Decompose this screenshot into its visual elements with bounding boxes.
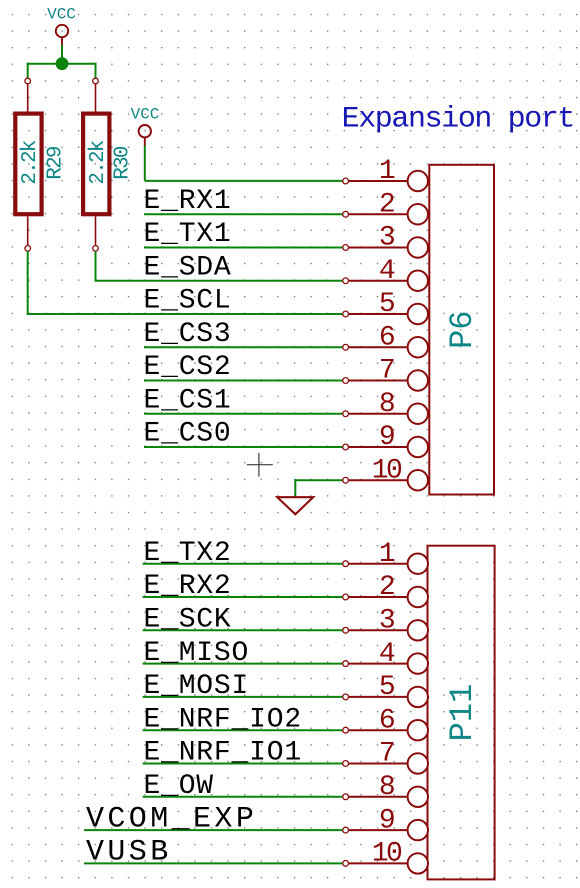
wire net E_MISO (143, 663, 343, 665)
wire net E_NRF_IO1 (143, 763, 343, 765)
svg-text:E_MOSI: E_MOSI (144, 671, 250, 702)
wire net E_SDA (95, 280, 344, 282)
wire R30 to E_SDA net (95, 251, 97, 281)
wire down to R29 (27, 63, 29, 78)
svg-text:6: 6 (379, 322, 394, 353)
wire VCC to junction (61, 46, 63, 64)
svg-text:2: 2 (379, 572, 394, 603)
svg-text:7: 7 (379, 739, 394, 770)
wire net E_CS2 (144, 380, 343, 382)
wire net E_CS3 (144, 346, 343, 348)
wire net E_RX2 (143, 596, 343, 598)
cross marker (247, 453, 273, 477)
resistor R29 2.2k (15, 78, 67, 251)
svg-text:1: 1 (379, 539, 395, 570)
pin 6 of P6 (343, 322, 428, 357)
svg-text:P11: P11 (444, 684, 481, 742)
svg-text:3: 3 (379, 223, 395, 254)
pin 10 of P11 (343, 839, 428, 874)
svg-text:VUSB: VUSB (86, 836, 172, 870)
svg-text:VCOM_EXP: VCOM_EXP (86, 802, 257, 836)
pin 7 of P11 (343, 739, 428, 774)
svg-text:10: 10 (372, 839, 402, 870)
svg-text:5: 5 (379, 289, 395, 320)
connector P6 (343, 156, 494, 494)
pin 10 of P6 (343, 455, 428, 490)
pin 3 of P11 (343, 606, 428, 641)
svg-text:E_SCL: E_SCL (144, 286, 232, 317)
pin 2 of P6 (343, 189, 428, 224)
svg-text:E_CS0: E_CS0 (144, 419, 232, 450)
svg-text:VCC: VCC (47, 6, 76, 24)
pin 1 of P11 (343, 539, 428, 574)
wire net VUSB (84, 862, 343, 864)
svg-text:P6: P6 (444, 310, 481, 348)
ground (277, 497, 313, 514)
wire net E_TX1 (144, 247, 343, 249)
svg-text:E_NRF_IO2: E_NRF_IO2 (144, 704, 302, 735)
power symbol VCC (pin 1 net) (131, 106, 160, 146)
svg-text:6: 6 (379, 705, 394, 736)
wire R29 to E_SCL net (27, 251, 29, 314)
wire net E_CS0 (144, 446, 343, 448)
svg-text:3: 3 (379, 606, 395, 637)
wire down to R30 (95, 63, 97, 78)
svg-text:2.2k: 2.2k (87, 140, 110, 184)
power symbol VCC (top) (47, 6, 76, 47)
svg-text:4: 4 (379, 256, 395, 287)
svg-text:9: 9 (379, 805, 394, 836)
pin 9 of P11 (343, 805, 428, 840)
svg-text:8: 8 (379, 389, 394, 420)
pin 4 of P11 (343, 639, 428, 674)
svg-text:E_CS1: E_CS1 (144, 385, 232, 416)
wire VCC down (144, 146, 146, 181)
junction (56, 57, 69, 70)
svg-text:2: 2 (379, 189, 394, 220)
pin 4 of P6 (343, 256, 428, 291)
pin 5 of P6 (343, 289, 428, 324)
svg-text:E_CS2: E_CS2 (144, 352, 232, 383)
wire net E_RX1 (144, 213, 343, 215)
pin 8 of P11 (343, 772, 428, 807)
svg-text:R30: R30 (112, 146, 135, 180)
pin 6 of P11 (343, 705, 428, 740)
svg-text:4: 4 (379, 639, 395, 670)
svg-text:1: 1 (379, 156, 395, 187)
svg-text:E_CS3: E_CS3 (144, 319, 232, 350)
svg-text:R29: R29 (45, 146, 68, 180)
pin 9 of P6 (343, 422, 428, 457)
pin 8 of P6 (343, 389, 428, 424)
pin 2 of P11 (343, 572, 428, 607)
wire net E_NRF_IO2 (143, 729, 343, 731)
wire net E_SCK (143, 629, 343, 631)
wire net E_OW (143, 796, 343, 798)
pin 1 of P6 (343, 156, 428, 191)
wire net VCOM_EXP (84, 829, 343, 831)
wire VCC to P6 pin 1 (145, 180, 343, 182)
svg-text:5: 5 (379, 672, 395, 703)
connector P11 (343, 539, 495, 880)
svg-text:8: 8 (379, 772, 394, 803)
wire horizontal VCC rail (27, 63, 97, 65)
svg-text:E_TX2: E_TX2 (144, 538, 232, 569)
svg-text:2.2k: 2.2k (19, 140, 42, 184)
svg-text:Expansion port: Expansion port (342, 103, 574, 137)
svg-text:E_TX1: E_TX1 (144, 219, 232, 250)
pin 3 of P6 (343, 223, 428, 258)
resistor R30 2.2k (83, 78, 135, 251)
pin 5 of P11 (343, 672, 428, 707)
svg-text:9: 9 (379, 422, 394, 453)
wire net E_MOSI (143, 696, 343, 698)
svg-text:E_MISO: E_MISO (144, 638, 250, 669)
wire net E_SCL (27, 313, 343, 315)
svg-text:E_SDA: E_SDA (144, 252, 232, 283)
svg-text:E_SCK: E_SCK (144, 605, 232, 636)
svg-text:E_RX2: E_RX2 (144, 571, 232, 602)
svg-text:E_OW: E_OW (144, 771, 214, 802)
svg-text:10: 10 (372, 455, 402, 486)
svg-text:E_NRF_IO1: E_NRF_IO1 (144, 738, 302, 769)
pin 7 of P6 (343, 356, 428, 391)
wire gnd to P6 pin 10 (295, 479, 343, 481)
svg-text:VCC: VCC (131, 106, 160, 124)
svg-text:7: 7 (379, 356, 394, 387)
wire net E_TX2 (143, 563, 343, 565)
wire net E_CS1 (144, 413, 343, 415)
svg-text:E_RX1: E_RX1 (144, 186, 232, 217)
